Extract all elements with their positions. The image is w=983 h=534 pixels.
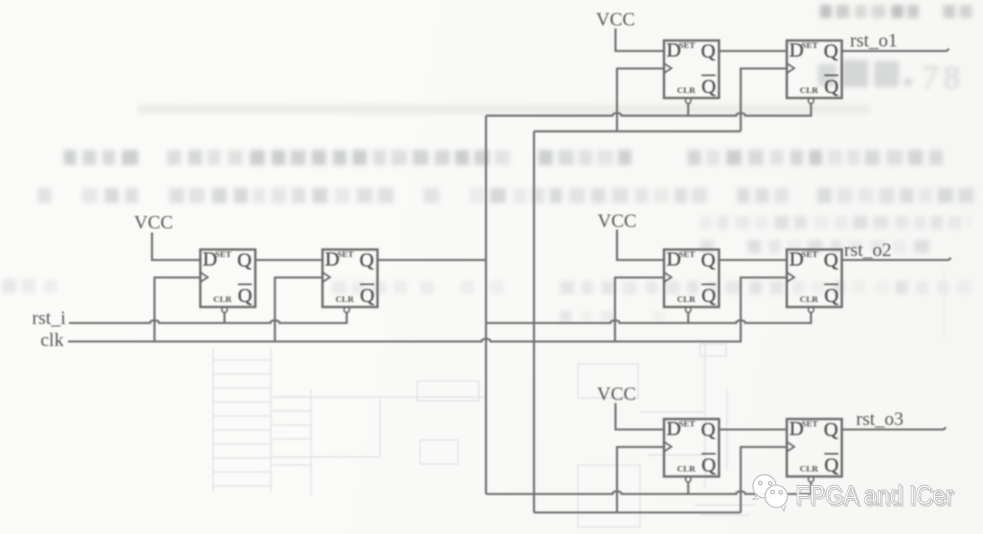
wire top CLR line from SYNC trunk to U3/U4 CLR, hops clock feeds — [486, 104, 811, 116]
flip-flop U7 — [664, 418, 719, 482]
wire rst_o3 output — [842, 427, 946, 429]
flip-flop U4 — [787, 39, 842, 103]
wire U7 CLR stub — [687, 482, 689, 494]
wire clk feed to U2 clock pin (hops rst_i line) — [275, 278, 323, 342]
wire U1.Q to U2.D — [255, 259, 322, 261]
wire bottom CLR line from SYNC trunk to U7/U8 CLR, hops clock feeds — [486, 482, 811, 494]
wire U1 CLR stub — [223, 313, 225, 323]
flip-flop U5 — [664, 248, 719, 312]
flip-flop U3 — [664, 39, 719, 103]
VCC stub to D of U5 — [617, 230, 664, 261]
flip-flop U2 — [323, 248, 378, 312]
flip-flop U1 — [200, 248, 255, 312]
watermark wechat icon — [753, 475, 788, 511]
wire clk feed to U7 clock pin — [617, 447, 664, 513]
wire clk feed to U4 clock pin (hops top CLR line) — [741, 69, 787, 132]
svg-text:FPGA and ICer: FPGA and ICer — [795, 480, 953, 510]
node SYNC : vertical distribution trunk of synchronized reset — [485, 116, 487, 494]
wire clk feed to U3 clock pin — [617, 69, 664, 132]
wire bottom clk line from CLKV trunk — [534, 511, 741, 513]
wire U2.Q to node SYNC trunk — [378, 259, 487, 261]
wire U5.Q to U6.D — [719, 259, 787, 261]
node CLKV : vertical distribution trunk of clk — [533, 131, 535, 512]
wire rst_i net: from label to CLR of U1 and U2, hops over clock feeds — [69, 313, 347, 323]
wire clk net: main horizontal clk line, hops sync trunk, rises to U6 clock — [68, 278, 787, 342]
wire U7.Q to U8.D — [719, 428, 787, 430]
wire mid CLR line from SYNC trunk to U5/U6 CLR, hops clock feeds — [486, 313, 811, 323]
wire clk feed to U8 clock pin (hops bottom CLR line) — [741, 447, 787, 513]
flip-flop U6 — [787, 248, 842, 312]
wire rst_o2 output — [842, 258, 951, 260]
wire U5 CLR stub — [687, 313, 689, 323]
wire top clk line from CLKV trunk — [534, 130, 741, 132]
wire U3 CLR stub — [687, 104, 689, 116]
wire clk feed to U5 clock pin — [615, 278, 664, 342]
wire rst_o1 output — [842, 49, 949, 51]
wire clk feed to U1 clock pin (hops rst_i line) — [155, 278, 201, 342]
VCC power symbol (left) : stub to D of U1 — [152, 233, 200, 261]
VCC stub to D of U7 — [616, 403, 665, 430]
VCC stub to D of U3 — [616, 29, 665, 52]
wire U3.Q to U4.D — [719, 50, 787, 52]
flip-flop U8 — [787, 418, 842, 482]
